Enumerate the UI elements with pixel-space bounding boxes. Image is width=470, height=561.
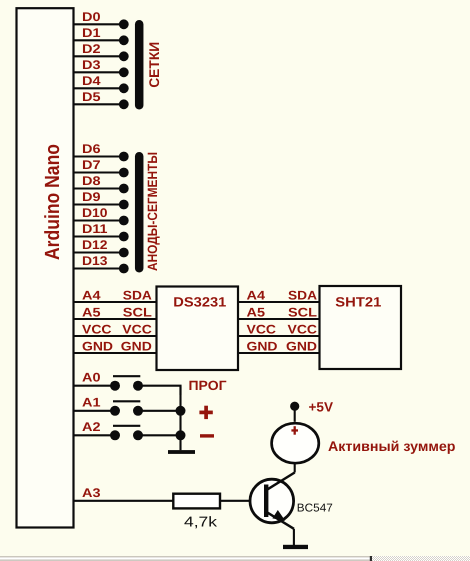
wire GND mid (238, 352, 320, 354)
wire A2 (74, 434, 116, 436)
resistor R1 4.7k (173, 494, 220, 531)
svg-text:A4: A4 (247, 288, 266, 302)
svg-text:СЕТКИ: СЕТКИ (146, 42, 162, 88)
node dot D9 (119, 200, 129, 210)
svg-text:D7: D7 (82, 158, 101, 172)
junction dot A2 bus (176, 430, 186, 440)
svg-text:GND: GND (247, 339, 278, 353)
transistor Q1 BC547 (250, 473, 333, 529)
wire A3 (74, 500, 174, 502)
wire A2 to bus (138, 434, 181, 436)
svg-text:D0: D0 (82, 10, 101, 24)
label plus (199, 406, 212, 419)
svg-text:Arduino Nano: Arduino Nano (41, 144, 64, 260)
svg-text:D3: D3 (82, 58, 101, 72)
svg-text:A5: A5 (247, 305, 266, 319)
svg-text:АНОДЫ-СЕГМЕНТЫ: АНОДЫ-СЕГМЕНТЫ (145, 152, 160, 271)
push button S2 plus (110, 401, 143, 416)
wire D13 (74, 267, 124, 269)
svg-text:ПРОГ: ПРОГ (189, 378, 227, 393)
svg-text:D10: D10 (82, 206, 108, 220)
svg-text:VCC: VCC (247, 322, 277, 336)
svg-text:D9: D9 (82, 190, 101, 204)
wire D9 (74, 203, 124, 205)
svg-text:A3: A3 (82, 486, 101, 500)
scrollbar thumb edge (370, 556, 372, 561)
wire D2 (74, 55, 124, 57)
svg-text:D13: D13 (82, 254, 108, 268)
svg-text:DS3231: DS3231 (173, 295, 227, 310)
svg-text:4,7k: 4,7k (184, 515, 218, 531)
svg-text:BC547: BC547 (297, 503, 333, 515)
node dot D6 (119, 152, 129, 162)
scrollbar thumb (0, 556, 370, 561)
wire GND left (74, 352, 157, 354)
wire D8 (74, 187, 124, 189)
node dot D0 (119, 19, 129, 29)
svg-text:A4: A4 (82, 288, 101, 302)
node dot D11 (119, 232, 129, 242)
node dot D1 (119, 35, 129, 45)
wire D4 (74, 87, 124, 89)
bus bar SETKI (135, 24, 144, 105)
node dot D2 (119, 51, 129, 61)
svg-text:A5: A5 (82, 305, 101, 319)
bus bar ANODY-SEGMENTY (135, 156, 144, 268)
RTC module DS3231 (157, 287, 239, 371)
svg-text:SDA: SDA (123, 288, 152, 302)
svg-text:D2: D2 (82, 42, 101, 56)
svg-text:A1: A1 (82, 396, 101, 410)
wire A4-SDA left (74, 301, 157, 303)
svg-text:D11: D11 (82, 222, 108, 236)
buzzer BZ1 (272, 423, 319, 463)
wire A0 to bus (138, 386, 181, 395)
wire D3 (74, 71, 124, 73)
svg-text:SHT21: SHT21 (335, 295, 382, 310)
svg-text:+5V: +5V (309, 399, 334, 414)
wire Q1 collector to buzzer (294, 464, 296, 473)
node dot D7 (119, 168, 129, 178)
wire D10 (74, 219, 124, 221)
svg-text:GND: GND (286, 339, 317, 353)
node dot D4 (119, 83, 129, 93)
ground emitter (283, 545, 308, 549)
wire D1 (74, 39, 124, 41)
svg-text:D4: D4 (82, 74, 101, 88)
wire D12 (74, 251, 124, 253)
svg-text:A0: A0 (82, 371, 101, 385)
wire VCC left (74, 335, 157, 337)
wire buzzer to +5V (294, 407, 296, 422)
wire A4-SDA mid (238, 301, 320, 303)
node dot D8 (119, 184, 129, 194)
wire A5-SCL mid (238, 318, 320, 320)
svg-text:Активный зуммер: Активный зуммер (328, 438, 456, 454)
ground buttons (168, 450, 195, 454)
node dot D13 (119, 264, 129, 274)
scrollbar track dither (0, 556, 470, 561)
node dot +5V (290, 402, 299, 411)
svg-text:SCL: SCL (123, 305, 152, 319)
wire R1 to Q1 base (220, 500, 266, 502)
wire VCC mid (238, 335, 320, 337)
svg-text:D1: D1 (82, 26, 101, 40)
svg-text:GND: GND (121, 339, 152, 353)
wire D6 (74, 155, 124, 157)
wire A5-SCL left (74, 318, 157, 320)
wire D5 (74, 103, 124, 105)
wire A0 (74, 385, 116, 387)
button bus wire (179, 386, 181, 451)
svg-text:D12: D12 (82, 238, 108, 252)
svg-text:GND: GND (82, 339, 113, 353)
wire D11 (74, 235, 124, 237)
svg-text:SCL: SCL (288, 305, 317, 319)
svg-text:VCC: VCC (122, 322, 152, 336)
wire D0 (74, 23, 124, 25)
arduino nano U1 (17, 8, 74, 527)
svg-text:D5: D5 (82, 90, 101, 104)
svg-text:VCC: VCC (82, 322, 112, 336)
node dot D3 (119, 67, 129, 77)
node dot D5 (119, 99, 129, 109)
sensor module SHT21 (320, 286, 402, 369)
push button S1 PROG (110, 376, 143, 391)
wire A1 to bus (138, 410, 181, 412)
svg-text:A2: A2 (82, 420, 101, 434)
wire A1 (74, 410, 116, 412)
junction dot A1 bus (176, 406, 186, 416)
wire D7 (74, 171, 124, 173)
svg-text:D6: D6 (82, 142, 101, 156)
svg-text:D8: D8 (82, 174, 101, 188)
node dot D10 (119, 216, 129, 226)
wire Q1 emitter down (293, 529, 295, 545)
node dot D12 (119, 248, 129, 258)
push button S3 minus (110, 426, 143, 441)
label minus (200, 434, 214, 437)
svg-text:VCC: VCC (288, 322, 318, 336)
svg-text:SDA: SDA (288, 288, 317, 302)
